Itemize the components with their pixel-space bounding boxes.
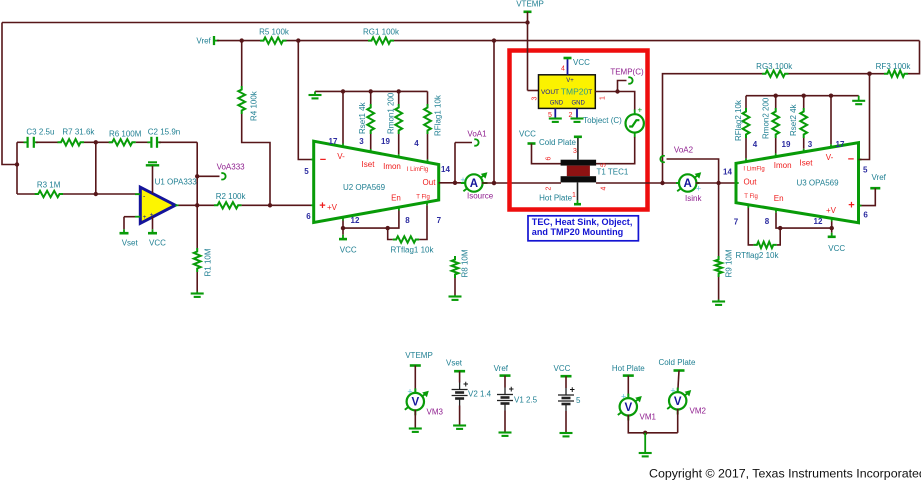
svg-text:En: En xyxy=(774,194,784,203)
svg-text:R4 100k: R4 100k xyxy=(250,90,259,121)
svg-text:Iset: Iset xyxy=(800,159,814,168)
svg-text:+: + xyxy=(407,386,412,396)
svg-text:Vref: Vref xyxy=(494,364,509,373)
svg-text:Isource: Isource xyxy=(467,192,494,201)
svg-text:R2 100k: R2 100k xyxy=(216,192,247,201)
svg-text:17: 17 xyxy=(329,137,338,146)
svg-text:R6 100M: R6 100M xyxy=(109,129,142,138)
svg-text:+V: +V xyxy=(826,206,837,215)
svg-text:6: 6 xyxy=(306,212,311,221)
svg-text:5: 5 xyxy=(863,166,868,175)
svg-text:GND: GND xyxy=(550,100,564,106)
svg-text:TMP20: TMP20 xyxy=(561,87,589,97)
svg-text:2: 2 xyxy=(546,186,553,190)
svg-text:Rmon2 200: Rmon2 200 xyxy=(762,97,771,139)
svg-text:En: En xyxy=(391,193,401,202)
svg-text:3: 3 xyxy=(573,148,577,155)
svg-text:+: + xyxy=(637,106,642,115)
svg-text:Out: Out xyxy=(423,178,437,187)
svg-text:Cold Plate: Cold Plate xyxy=(539,138,576,147)
svg-text:6: 6 xyxy=(546,156,553,160)
svg-text:Rmon1 200: Rmon1 200 xyxy=(387,92,396,134)
svg-text:and TMP20 Mounting: and TMP20 Mounting xyxy=(532,227,623,237)
svg-text:Vref: Vref xyxy=(872,173,887,182)
svg-text:VCC: VCC xyxy=(149,238,166,247)
svg-text:R3 1M: R3 1M xyxy=(37,180,61,189)
svg-text:R7 31.6k: R7 31.6k xyxy=(62,127,95,136)
svg-text:VCC: VCC xyxy=(554,364,571,373)
svg-text:R5 100k: R5 100k xyxy=(259,27,290,36)
svg-text:−: − xyxy=(848,154,854,166)
svg-text:14: 14 xyxy=(723,168,732,177)
svg-text:3: 3 xyxy=(808,140,813,149)
svg-text:TEMP(C): TEMP(C) xyxy=(610,68,644,77)
svg-text:Imon: Imon xyxy=(383,162,401,171)
svg-text:Cold Plate: Cold Plate xyxy=(659,358,696,367)
svg-text:5: 5 xyxy=(548,112,552,119)
svg-text:Hot Plate: Hot Plate xyxy=(612,364,645,373)
svg-text:+V: +V xyxy=(327,203,338,212)
svg-text:+: + xyxy=(670,386,675,396)
svg-text:I LimFlg: I LimFlg xyxy=(407,167,428,173)
svg-text:Vset: Vset xyxy=(122,238,139,247)
svg-text:VOUT: VOUT xyxy=(541,89,559,96)
svg-text:VM2: VM2 xyxy=(690,407,707,416)
svg-text:7: 7 xyxy=(734,218,739,227)
svg-text:Imon: Imon xyxy=(774,161,792,170)
svg-text:Isink: Isink xyxy=(685,194,702,203)
svg-text:RF3 100k: RF3 100k xyxy=(876,62,912,71)
svg-text:3: 3 xyxy=(359,137,364,146)
svg-text:8: 8 xyxy=(765,217,770,226)
svg-text:VoA1: VoA1 xyxy=(467,130,487,139)
svg-text:19: 19 xyxy=(381,137,390,146)
svg-text:V1 2.5: V1 2.5 xyxy=(514,395,538,404)
svg-text:6: 6 xyxy=(863,211,868,220)
svg-text:+: + xyxy=(460,175,465,185)
svg-text:7: 7 xyxy=(437,216,442,225)
svg-text:+: + xyxy=(463,379,468,389)
svg-text:14: 14 xyxy=(441,165,450,174)
svg-text:5: 5 xyxy=(601,163,608,167)
svg-text:RTflag2 10k: RTflag2 10k xyxy=(736,251,780,260)
svg-text:12: 12 xyxy=(351,216,360,225)
svg-text:+: + xyxy=(570,385,575,395)
svg-text:12: 12 xyxy=(814,217,823,226)
svg-text:V-: V- xyxy=(826,153,834,162)
svg-text:RTflag1 10k: RTflag1 10k xyxy=(391,246,435,255)
svg-text:Vref: Vref xyxy=(196,36,211,45)
svg-text:Vset: Vset xyxy=(446,359,463,368)
svg-text:1: 1 xyxy=(572,192,576,199)
svg-text:T Flg: T Flg xyxy=(744,194,758,200)
svg-text:C3 2.5u: C3 2.5u xyxy=(26,127,54,136)
svg-text:1: 1 xyxy=(600,96,607,100)
svg-text:VoA2: VoA2 xyxy=(674,145,694,154)
svg-text:VCC: VCC xyxy=(573,58,590,67)
svg-text:R9 10M: R9 10M xyxy=(725,249,734,277)
svg-text:R8 10M: R8 10M xyxy=(461,249,470,277)
svg-text:V: V xyxy=(624,402,632,414)
svg-text:5: 5 xyxy=(304,167,309,176)
svg-text:4: 4 xyxy=(561,66,565,73)
svg-text:V: V xyxy=(411,397,419,409)
svg-text:Iset: Iset xyxy=(362,160,376,169)
svg-text:I LimFlg: I LimFlg xyxy=(743,166,764,172)
svg-text:V2 1.4: V2 1.4 xyxy=(468,389,492,398)
svg-text:Rset2 4k: Rset2 4k xyxy=(789,103,798,136)
svg-text:3: 3 xyxy=(532,96,539,100)
svg-text:Out: Out xyxy=(744,178,758,187)
svg-text:VTEMP: VTEMP xyxy=(405,351,433,360)
svg-text:T1 TEC1: T1 TEC1 xyxy=(597,168,629,177)
svg-text:U2 OPA569: U2 OPA569 xyxy=(343,183,386,192)
svg-text:A: A xyxy=(470,178,478,190)
svg-text:2: 2 xyxy=(569,112,573,119)
svg-text:U1 OPA333: U1 OPA333 xyxy=(155,177,198,186)
svg-text:−: − xyxy=(320,154,326,166)
svg-text:Copyright © 2017, Texas Instru: Copyright © 2017, Texas Instruments Inco… xyxy=(649,467,921,481)
svg-text:17: 17 xyxy=(836,140,845,149)
svg-text:V-: V- xyxy=(337,152,345,161)
svg-text:V: V xyxy=(674,396,682,408)
svg-text:Rset1 4k: Rset1 4k xyxy=(358,101,367,134)
svg-text:T Flg: T Flg xyxy=(416,194,430,200)
svg-text:5: 5 xyxy=(576,396,581,405)
svg-text:A: A xyxy=(684,178,692,190)
svg-text:19: 19 xyxy=(782,140,791,149)
svg-text:RG1 100k: RG1 100k xyxy=(363,27,400,36)
svg-text:Tobject (C): Tobject (C) xyxy=(583,116,622,125)
svg-text:VoA333: VoA333 xyxy=(217,163,246,172)
svg-text:+: + xyxy=(696,184,701,194)
svg-text:C2 15.9n: C2 15.9n xyxy=(148,128,180,137)
svg-text:4: 4 xyxy=(601,186,608,190)
svg-text:R1 10M: R1 10M xyxy=(204,248,213,276)
svg-text:RG3 100k: RG3 100k xyxy=(756,62,793,71)
svg-text:VTEMP: VTEMP xyxy=(516,0,544,9)
svg-text:+: + xyxy=(143,214,147,221)
svg-text:4: 4 xyxy=(753,140,758,149)
svg-text:VM1: VM1 xyxy=(640,413,657,422)
svg-text:+: + xyxy=(621,392,626,402)
svg-text:4: 4 xyxy=(414,139,419,148)
svg-text:VCC: VCC xyxy=(340,246,357,255)
svg-text:VCC: VCC xyxy=(519,130,536,139)
svg-text:U3 OPA569: U3 OPA569 xyxy=(796,178,839,187)
svg-text:VM3: VM3 xyxy=(427,408,444,417)
svg-text:GND: GND xyxy=(572,100,586,106)
svg-text:8: 8 xyxy=(405,216,410,225)
svg-text:RFlag2 10k: RFlag2 10k xyxy=(734,99,743,141)
svg-text:+: + xyxy=(509,384,514,394)
svg-text:RFlag1 10k: RFlag1 10k xyxy=(434,94,443,136)
svg-text:V+: V+ xyxy=(566,78,574,84)
svg-text:+: + xyxy=(319,200,325,212)
svg-text:Hot Plate: Hot Plate xyxy=(539,194,572,203)
svg-text:TEC, Heat Sink, Object,: TEC, Heat Sink, Object, xyxy=(532,217,633,227)
svg-text:VCC: VCC xyxy=(828,244,845,253)
svg-text:+: + xyxy=(848,200,854,212)
svg-text:T: T xyxy=(588,89,592,96)
